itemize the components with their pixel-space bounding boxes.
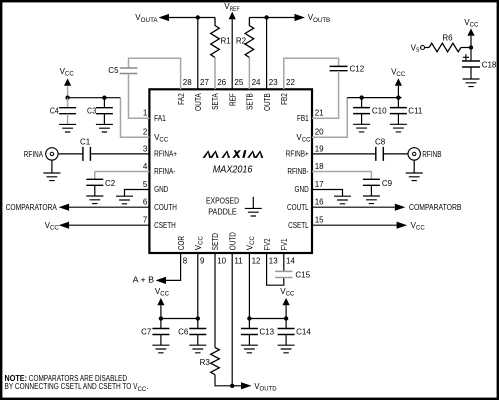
capacitor C7 [160, 319, 162, 329]
svg-text:R1: R1 [221, 37, 232, 46]
svg-text:C8: C8 [375, 138, 386, 147]
capacitor C13 [248, 319, 250, 329]
svg-text:C4: C4 [50, 106, 60, 115]
svg-text:SETB: SETB [246, 93, 255, 110]
wire VCC rail to C3 [68, 97, 121, 99]
svg-text:17: 17 [315, 180, 324, 189]
svg-text:14: 14 [286, 257, 295, 266]
svg-text:RFINA+: RFINA+ [154, 150, 177, 159]
wire pin 8 COR to A+B arrow [166, 253, 181, 280]
capacitor C5 [120, 68, 138, 74]
arrow to VOUTD [241, 382, 252, 389]
op-amp U1 MAX2016 IC body [149, 89, 312, 253]
wire pin 16 COUTL [312, 206, 395, 208]
arrow to VCC at pin 7 [59, 222, 70, 229]
svg-text:COUTH: COUTH [154, 203, 177, 212]
arrow to COMPARATORB [395, 204, 406, 211]
svg-text:COUTL: COUTL [287, 203, 309, 212]
capacitor C8 [376, 147, 384, 161]
svg-text:24: 24 [252, 78, 261, 87]
svg-text:C9: C9 [382, 179, 393, 188]
node OUTA junction [196, 15, 200, 19]
svg-text:FB2: FB2 [280, 93, 289, 105]
svg-text:28: 28 [183, 78, 192, 87]
ground of C2 [86, 196, 103, 204]
wire VCC arrow to C14 node [285, 305, 287, 318]
svg-text:RFINA: RFINA [24, 150, 44, 159]
ground at pin 17 [334, 196, 351, 204]
resistor R3 [211, 348, 220, 375]
ground of C11 [390, 124, 407, 132]
svg-text:SETA: SETA [211, 93, 220, 110]
wire VCC rail right [347, 97, 401, 99]
wire RFINA to C1 [58, 153, 83, 155]
resistor R2 [245, 18, 254, 58]
ground of RFINA [43, 173, 60, 181]
ground of RFINB [406, 173, 423, 181]
svg-text:C5: C5 [108, 66, 119, 75]
arrow to COMPARATORA [59, 204, 70, 211]
svg-text:6: 6 [143, 198, 148, 207]
wire pin 9 VCC down [197, 253, 199, 319]
ground of exposed paddle [252, 197, 254, 209]
wire pin 11 OUTD down [231, 253, 233, 386]
ground of C10 [353, 124, 370, 132]
wire pin 7 CSETH [69, 224, 149, 226]
svg-text:2: 2 [143, 128, 148, 137]
logo MAXIM [203, 150, 264, 158]
node C10 junction [359, 95, 363, 99]
wire RFINA connector to ground [51, 160, 53, 173]
wire VREF to pin 25 REF [231, 19, 233, 89]
wire C8 to RFINB connector [383, 153, 408, 155]
svg-text:R2: R2 [236, 37, 247, 46]
connector RFINB [408, 148, 420, 160]
svg-text:C18: C18 [482, 60, 497, 69]
node C7 junction [159, 316, 163, 320]
ground of C18 [463, 79, 480, 87]
node C3 junction [102, 96, 106, 100]
svg-text:C11: C11 [408, 106, 423, 115]
svg-text:SETD: SETD [211, 233, 220, 250]
svg-text:9: 9 [200, 257, 205, 266]
power VCC arrow above C7 [157, 298, 164, 305]
wire VOUTB rail [249, 17, 294, 19]
wire R3 to VOUTD node [215, 375, 232, 386]
svg-text:CSETH: CSETH [154, 221, 176, 230]
svg-text:RFINB+: RFINB+ [286, 150, 309, 159]
arrow to VCC at pin 15 [397, 222, 408, 229]
capacitor C2 [86, 179, 103, 185]
wire pin 4 RFINA- to C2 [95, 172, 150, 180]
wire RFINB connector to ground [413, 160, 415, 173]
svg-text:RFINA-: RFINA- [154, 167, 176, 176]
resistor R1 [211, 18, 220, 58]
svg-text:GND: GND [295, 185, 309, 194]
svg-text:C13: C13 [259, 327, 274, 336]
svg-text:C6: C6 [178, 327, 189, 336]
svg-text:CSETL: CSETL [288, 221, 309, 230]
svg-text:5: 5 [143, 180, 148, 189]
wire VS to R6 [425, 47, 429, 49]
node R6 C18 junction [469, 45, 473, 49]
svg-text:FV1: FV1 [280, 238, 289, 250]
capacitor C14 [285, 319, 287, 329]
svg-text:RFINB: RFINB [422, 150, 441, 159]
svg-text:OUTB: OUTB [263, 93, 272, 111]
power VCC arrow top right [467, 28, 474, 35]
capacitor C4 [67, 98, 69, 108]
svg-text:7: 7 [143, 216, 148, 225]
wire C5 top to pin 28 FA2 [129, 58, 181, 89]
svg-text:C3: C3 [87, 106, 97, 115]
arrow to VOUTA [159, 14, 170, 21]
power VCC arrow above C14 [283, 298, 290, 305]
node VOUTD junction [230, 384, 234, 388]
svg-text:FA2: FA2 [177, 93, 186, 105]
svg-text:23: 23 [269, 78, 278, 87]
wire pin 22 FB2 to C12 [284, 58, 339, 89]
svg-text:OUTD: OUTD [228, 232, 237, 250]
ground of C6 [189, 345, 206, 353]
capacitor C1 [83, 147, 91, 161]
svg-text:MAX2016: MAX2016 [213, 164, 253, 176]
arrow to VOUTB [295, 14, 306, 21]
svg-text:OUTA: OUTA [194, 93, 203, 111]
wire pin 27 OUTA [197, 18, 199, 90]
svg-text:C12: C12 [350, 65, 365, 74]
arrow to A plus B [156, 277, 167, 284]
ground of C4 [59, 124, 76, 132]
wire to pin 2 VCC [121, 98, 150, 138]
wire R6 to C18 node [461, 47, 471, 49]
ground of C13 [241, 345, 258, 353]
svg-text:FV2: FV2 [263, 238, 272, 250]
svg-text:16: 16 [315, 198, 324, 207]
svg-text:12: 12 [252, 257, 261, 266]
capacitor C18 [462, 61, 480, 67]
ground of C7 [152, 345, 169, 353]
capacitor C15 [275, 271, 292, 277]
svg-text:C1: C1 [80, 138, 91, 147]
arrow VREF [229, 12, 236, 19]
wire C12 to pin 21 FB1 [312, 71, 339, 119]
svg-text:18: 18 [315, 162, 324, 171]
wire pin 19 RFINB+ to C8 [312, 153, 376, 155]
wire VCC to rail [67, 86, 69, 98]
wire pin 12 VCC down [248, 253, 250, 319]
svg-text:COR: COR [177, 236, 186, 250]
wire R1 to pin 26 SETA [214, 58, 216, 90]
wire node to C18 [470, 48, 472, 62]
svg-text:R3: R3 [200, 358, 211, 367]
wire VCC arrow to rail [397, 86, 399, 98]
svg-text:19: 19 [315, 144, 324, 153]
svg-text:COMPARATORA: COMPARATORA [6, 203, 58, 212]
wire C7 to C6 rail [161, 318, 198, 320]
wire pin 20 VCC to rail [312, 98, 347, 138]
svg-text:26: 26 [217, 78, 226, 87]
svg-text:4: 4 [143, 162, 148, 171]
svg-text:C2: C2 [105, 179, 116, 188]
wire R2 to pin 24 SETB [248, 58, 250, 90]
node OUTB junction [264, 15, 268, 19]
ground of C9 [363, 196, 380, 204]
svg-text:8: 8 [183, 257, 188, 266]
svg-text:PADDLE: PADDLE [208, 207, 237, 216]
svg-text:3: 3 [143, 144, 148, 153]
wire pin 6 COUTH [69, 206, 149, 208]
svg-text:11: 11 [234, 257, 243, 266]
svg-text:A + B: A + B [133, 276, 155, 285]
svg-text:1: 1 [143, 109, 148, 118]
resistor R6 [429, 43, 461, 52]
wire pin 10 SETD to R3 [214, 253, 216, 348]
wire VOUTD arrow stub [232, 385, 241, 387]
wire pin 14 FV1 to C15 [283, 253, 285, 271]
wire VCC arrow to node [470, 36, 472, 48]
ground of C14 [278, 345, 295, 353]
svg-text:15: 15 [315, 216, 324, 225]
svg-text:22: 22 [286, 78, 295, 87]
svg-text:COMPARATORB: COMPARATORB [409, 203, 462, 212]
svg-text:R6: R6 [442, 34, 453, 43]
wire C5 bottom to pin 1 FA1 [129, 74, 150, 119]
ground at pin 5 [116, 196, 133, 204]
polarity plus of C18 [463, 54, 469, 60]
wire C1 to pin 3 RFINA+ [90, 153, 149, 155]
svg-text:REF: REF [228, 93, 237, 106]
capacitor C10 [361, 98, 363, 108]
connector VS terminal [421, 46, 425, 50]
svg-text:27: 27 [200, 78, 209, 87]
svg-text:10: 10 [217, 257, 226, 266]
wire pin 18 RFINB- to C9 [312, 172, 371, 180]
svg-text:C14: C14 [296, 327, 311, 336]
svg-text:C15: C15 [295, 271, 310, 280]
power VCC arrow top left [64, 78, 71, 85]
svg-text:RFINB-: RFINB- [287, 167, 309, 176]
wire pin 13 FV2 loop [267, 253, 284, 285]
node C13 junction [247, 316, 251, 320]
wire C13 to C14 rail [249, 318, 286, 320]
connector RFINA [46, 148, 58, 160]
svg-text:C10: C10 [372, 106, 387, 115]
svg-text:EXPOSED: EXPOSED [206, 196, 239, 205]
svg-text:21: 21 [315, 109, 324, 118]
svg-text:13: 13 [269, 257, 278, 266]
capacitor C6 [197, 319, 199, 329]
node VCC C4 junction [65, 96, 69, 100]
svg-text:GND: GND [154, 185, 168, 194]
wire pin 23 OUTB [266, 18, 268, 90]
node C14 junction [284, 316, 288, 320]
ground of C3 [96, 124, 113, 132]
svg-text:FB1: FB1 [297, 114, 309, 123]
wire VCC arrow to C7 node [160, 305, 162, 318]
svg-text:C7: C7 [141, 327, 152, 336]
capacitor C11 [397, 98, 399, 108]
wire pin 5 GND [125, 190, 150, 197]
wire pin 15 CSETL [312, 224, 397, 226]
capacitor C3 [103, 98, 105, 108]
wire VOUTA rail [169, 17, 215, 19]
node C11 junction [396, 95, 400, 99]
svg-text:20: 20 [315, 128, 324, 137]
capacitor C12 [330, 66, 348, 70]
power VCC arrow above C11 [395, 78, 402, 85]
node C6 junction [196, 316, 200, 320]
wire pin 17 GND [312, 190, 343, 197]
capacitor C9 [363, 179, 380, 185]
svg-text:FA1: FA1 [154, 114, 166, 123]
svg-text:25: 25 [234, 78, 243, 87]
